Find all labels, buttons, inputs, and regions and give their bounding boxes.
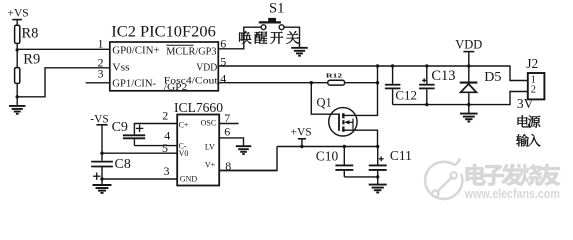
svg-text:C+: C+ — [179, 120, 189, 129]
svg-text:GND: GND — [180, 174, 198, 183]
wire rail step to J2 pin1 — [510, 66, 528, 81]
svg-text:OSC: OSC — [201, 118, 217, 127]
wire pin8 V+ — [219, 170, 277, 172]
node VDD / D5 top — [467, 64, 470, 67]
wire riser to pin8 — [219, 147, 277, 171]
wire C8 to pin3 line — [101, 167, 103, 186]
resistor R8 — [15, 25, 20, 43]
svg-text:J2: J2 — [526, 56, 538, 71]
node V0 junction — [100, 152, 103, 155]
svg-text:6: 6 — [224, 124, 230, 138]
svg-text:Vss: Vss — [112, 63, 129, 74]
S1 actuator bar — [259, 21, 281, 23]
wire pin6 to ground — [219, 138, 243, 146]
svg-text:R9: R9 — [23, 52, 40, 68]
wire -VS to C8 — [101, 125, 103, 161]
wire VDD rail pin5 — [218, 65, 510, 67]
wire ground line step to J2 pin2 — [510, 92, 528, 105]
node C12 junction — [391, 64, 394, 67]
wire node to R9 — [16, 50, 18, 68]
svg-text:C11: C11 — [390, 148, 412, 163]
S1 right contact circle — [279, 25, 284, 30]
node C10 junction — [343, 145, 346, 148]
svg-text:2: 2 — [162, 109, 168, 123]
svg-text:+VS: +VS — [291, 126, 312, 138]
svg-text:ICL7660: ICL7660 — [174, 101, 223, 116]
resistor R9 — [15, 68, 20, 84]
svg-text:VDD: VDD — [196, 62, 217, 73]
wire D5 to ground symbol — [468, 105, 470, 114]
svg-text:3V: 3V — [517, 96, 534, 111]
svg-text:VDD: VDD — [455, 37, 482, 51]
svg-text:3: 3 — [164, 164, 170, 178]
svg-text:Q1: Q1 — [317, 96, 332, 110]
svg-text:2: 2 — [531, 85, 536, 96]
Q1 substrate arrow — [347, 121, 354, 123]
svg-text:LV: LV — [205, 142, 215, 151]
wire C9 to pin4 — [133, 139, 135, 145]
wire gate line pin4 with R12 — [218, 82, 327, 84]
diode D5 — [468, 66, 470, 82]
ground pin6 LV — [236, 145, 252, 147]
watermark site name (Chinese) — [465, 164, 486, 186]
Q1 bottom lead to +VS rail — [343, 130, 377, 146]
capacitor C12 — [392, 66, 394, 84]
wire pin1 GP0 — [17, 48, 110, 50]
node C13 junction — [425, 64, 428, 67]
wire pin6 MCLR to switch — [218, 27, 261, 49]
wire C10 to C11 bottom — [344, 176, 377, 178]
wire pin7 stub — [219, 123, 238, 125]
svg-text:R8: R8 — [22, 26, 39, 42]
S1 button knob — [268, 18, 276, 22]
node C13 bottom — [425, 103, 428, 106]
node riser to VDD rail — [376, 64, 379, 67]
svg-text:C13: C13 — [431, 68, 455, 84]
node C11 bottom — [376, 175, 379, 178]
wire pin3 GND — [102, 178, 177, 180]
ground under C8 — [93, 184, 112, 186]
svg-text:+VS: +VS — [8, 8, 29, 20]
wire pin4 C- — [134, 145, 177, 147]
wire to ground — [377, 177, 379, 185]
node gate branch — [310, 81, 313, 84]
capacitor C11 polarized — [377, 147, 379, 165]
node D5 bottom — [467, 103, 470, 106]
wire R9 to ground — [16, 83, 18, 106]
svg-text:V0: V0 — [179, 149, 189, 158]
svg-text:7: 7 — [224, 111, 230, 125]
label wake switch (Chinese) — [239, 31, 251, 44]
svg-text:IC2 PIC10F206: IC2 PIC10F206 — [111, 23, 216, 40]
svg-text:www.elecfans.com: www.elecfans.com — [464, 186, 560, 201]
svg-text:-VS: -VS — [90, 113, 109, 125]
svg-text:C12: C12 — [395, 87, 417, 102]
svg-text:R12: R12 — [326, 72, 342, 79]
wire ground line C12 to J2 — [393, 104, 511, 106]
svg-text:V+: V+ — [205, 160, 216, 169]
svg-text:GP0/CIN+: GP0/CIN+ — [112, 46, 160, 57]
wire pin5 V0 — [102, 152, 177, 154]
svg-text:C9: C9 — [112, 120, 128, 135]
ground under S1 — [291, 47, 308, 49]
svg-text:4: 4 — [220, 72, 226, 86]
capacitor C13 polarized — [426, 66, 428, 84]
svg-text:D5: D5 — [484, 70, 501, 85]
wire pin2 to C9 — [134, 124, 177, 135]
node R12 right / source riser — [376, 81, 379, 84]
ground under C11 — [369, 184, 387, 186]
node +VS stem — [300, 145, 303, 148]
Q1 channel segments — [342, 113, 344, 118]
svg-text:GP1/CIN-: GP1/CIN- — [112, 78, 156, 89]
S1 left contact circle — [261, 25, 266, 30]
svg-text:3: 3 — [98, 67, 104, 81]
Q1 drain/source lead dots — [342, 114, 345, 117]
resistor R12 — [328, 80, 345, 85]
Q1 body circle — [329, 108, 357, 136]
svg-text:MCLR/GP3: MCLR/GP3 — [166, 46, 216, 57]
wire +VS rail — [277, 146, 378, 148]
Q1 gate bar — [338, 113, 340, 130]
svg-text:/GP2: /GP2 — [164, 83, 188, 93]
svg-text:S1: S1 — [269, 0, 285, 16]
node Q1 drain / C11 junction — [376, 145, 379, 148]
svg-text:C10: C10 — [316, 149, 339, 164]
node pin1/R8/R9 junction — [16, 48, 19, 51]
wire switch right to ground — [284, 27, 300, 48]
node pin3 junction — [100, 177, 103, 180]
ground left — [9, 105, 26, 107]
ground under D5 — [460, 113, 478, 115]
wire pin2 Vss return — [17, 68, 110, 97]
capacitor C10 — [343, 147, 345, 165]
op-amp U1 : IC2 PIC10F206 box — [110, 42, 219, 91]
wire pin3 stub — [86, 82, 111, 84]
svg-text:C8: C8 — [115, 157, 131, 172]
wire R8 bottom to node — [16, 43, 18, 49]
watermark logo circle — [425, 159, 462, 199]
node Vss return junction — [16, 95, 19, 98]
wire gate riser — [311, 83, 338, 115]
Q1 top lead to VDD — [343, 66, 377, 115]
svg-text:1: 1 — [98, 37, 104, 51]
